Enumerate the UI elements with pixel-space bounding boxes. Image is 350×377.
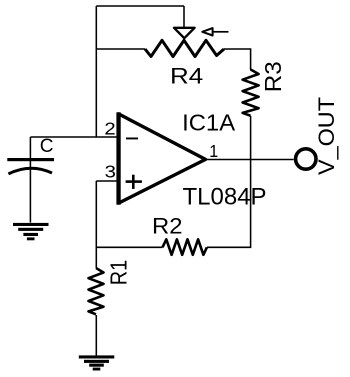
- svg-text:R3: R3: [260, 61, 286, 92]
- svg-text:R1: R1: [106, 260, 132, 286]
- svg-text:3: 3: [105, 162, 116, 182]
- svg-text:R4: R4: [170, 63, 203, 88]
- svg-text:2: 2: [104, 119, 115, 139]
- svg-text:IC1A: IC1A: [182, 110, 235, 136]
- svg-text:C: C: [40, 136, 54, 157]
- svg-text:TL084P: TL084P: [183, 183, 267, 210]
- svg-text:V_OUT: V_OUT: [314, 97, 339, 175]
- svg-text:R2: R2: [152, 214, 183, 239]
- svg-text:1: 1: [209, 141, 218, 161]
